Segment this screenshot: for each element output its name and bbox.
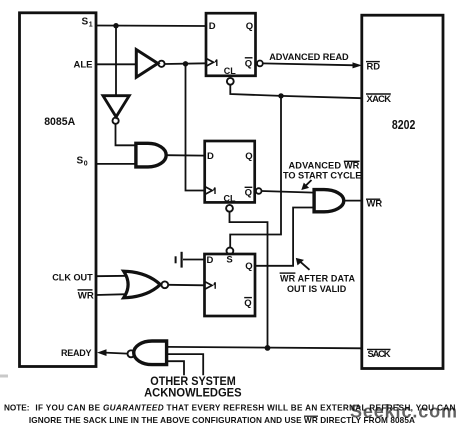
svg-text:RD: RD [367,60,381,71]
svg-text:ACKNOWLEDGES: ACKNOWLEDGES [144,385,242,399]
svg-text:CL: CL [224,66,236,76]
svg-text:Q: Q [245,187,252,198]
svg-text:Q: Q [246,21,253,32]
svg-text:D: D [209,21,216,32]
svg-text:XACK: XACK [367,93,392,104]
svg-text:WR: WR [367,198,383,209]
svg-text:D: D [207,255,214,266]
svg-text:ALE: ALE [74,59,93,70]
svg-text:SACK: SACK [368,348,391,359]
svg-text:Seekic.com: Seekic.com [350,402,457,422]
svg-text:ADVANCED READ: ADVANCED READ [269,52,349,62]
svg-text:WR: WR [78,290,94,301]
svg-text:S: S [82,17,89,28]
svg-text:Q: Q [245,58,252,69]
svg-text:D: D [207,151,214,162]
svg-text:Q: Q [244,298,251,309]
svg-text:CL: CL [224,193,236,203]
svg-text:8085A: 8085A [44,116,75,128]
svg-text:S: S [77,156,84,167]
svg-text:Q: Q [245,261,252,272]
svg-text:Q: Q [245,151,252,162]
svg-text:ADVANCED WR: ADVANCED WR [289,160,360,170]
svg-text:OUT IS VALID: OUT IS VALID [287,284,347,294]
svg-text:CLK OUT: CLK OUT [52,273,93,284]
svg-text:WR AFTER DATA: WR AFTER DATA [280,274,356,284]
svg-text:READY: READY [61,348,92,358]
svg-text:TO START CYCLE: TO START CYCLE [283,170,361,180]
svg-text:S: S [226,255,232,266]
svg-text:0: 0 [84,161,88,168]
svg-text:8202: 8202 [392,117,415,132]
svg-text:NOTE:: NOTE: [4,404,29,413]
svg-text:1: 1 [89,22,93,29]
